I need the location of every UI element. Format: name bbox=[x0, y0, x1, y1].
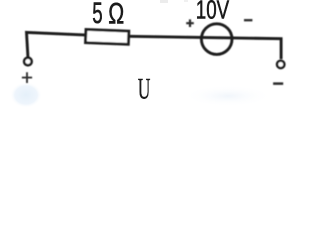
wire: left vertical + top-left segment to resistor bbox=[27, 32, 86, 56]
resistor R (5 ohm) body bbox=[85, 29, 128, 44]
wire: resistor to right corner, through source, down to right terminal bbox=[129, 36, 281, 59]
svg-text:U: U bbox=[138, 72, 151, 105]
minus sign of source bbox=[244, 19, 252, 21]
svg-text:10V: 10V bbox=[196, 0, 229, 24]
voltage source U1 (10V) circle bbox=[201, 24, 232, 55]
svg-text:Ω: Ω bbox=[108, 0, 124, 31]
plus sign of source bbox=[186, 19, 194, 27]
plus sign at left terminal bbox=[22, 72, 32, 83]
svg-text:5: 5 bbox=[92, 0, 102, 30]
terminal (left, +) bbox=[24, 58, 32, 66]
minus sign at right terminal bbox=[273, 82, 283, 85]
terminal (right, -) bbox=[277, 61, 284, 68]
